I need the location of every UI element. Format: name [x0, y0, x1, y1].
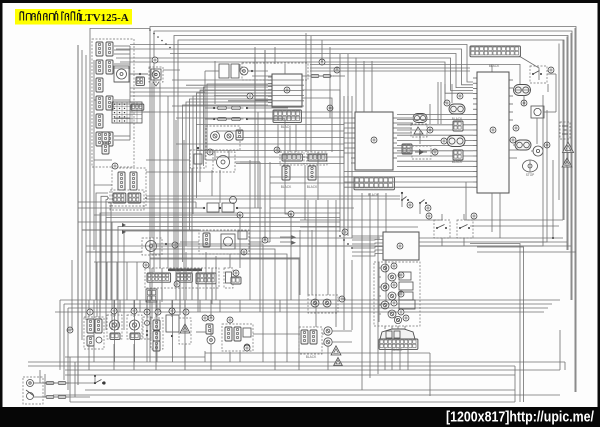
battery sym dashed [560, 122, 570, 139]
meter lamp 5 [381, 300, 415, 309]
wire regulator right stubs [397, 118, 413, 153]
horn buttons dashed [23, 377, 43, 404]
svg-text:BLACK: BLACK [452, 160, 463, 164]
meter lamp 1 [381, 263, 397, 272]
pilot lamp cluster [206, 126, 243, 155]
border frame top [0, 0, 600, 3]
wire right lower link [466, 150, 563, 226]
wire regulator left fan [176, 118, 351, 164]
coupler T1 dashed [274, 147, 304, 165]
wire right col down [559, 28, 575, 392]
wire lower long lines [28, 362, 565, 402]
coupler T2 body [307, 166, 318, 189]
connector block A1 [96, 42, 103, 56]
wire rear stubs [196, 332, 300, 334]
bottom black banner [0, 407, 600, 427]
wire fuse rows [205, 108, 288, 119]
ref number N6 [513, 125, 519, 131]
handle switch HS1 dashed [426, 213, 450, 238]
wire lamp feeders [97, 252, 216, 300]
wire right pair down [470, 160, 554, 402]
ignition inline pills [252, 67, 345, 78]
tail lamp L1 [533, 142, 550, 156]
svg-text:BLACK: BLACK [307, 185, 318, 189]
warning shield W2 [562, 158, 572, 167]
neutral switch SW2 [419, 200, 431, 215]
border frame left [0, 0, 3, 427]
wire switch drops [420, 238, 470, 246]
diode pack D0 dashed [107, 190, 147, 210]
coupler T2 dashed [307, 152, 327, 165]
tail bulb TB1 [324, 327, 332, 335]
fuse panel grid1 [147, 273, 171, 282]
cdi small block [166, 308, 179, 337]
meter unit cluster [219, 64, 253, 78]
rectifier oval O1 [413, 114, 427, 123]
position lamp P1 [143, 317, 151, 339]
wire center-left horizontals [78, 202, 383, 262]
title box [15, 9, 132, 25]
wire conn-top stub [491, 64, 493, 72]
coupler T1 body [281, 166, 292, 189]
ref number N12 [237, 212, 243, 218]
left cluster dashed outline [92, 39, 134, 167]
wire meter bundle joint [339, 235, 353, 249]
CDI unit U1 [268, 74, 302, 107]
mini cluster left of M2 [136, 77, 159, 86]
coupler below CDI [273, 110, 301, 129]
meter lamp 6 [388, 309, 404, 318]
wire bottom long [574, 391, 576, 393]
relay grid R1 [402, 144, 412, 154]
ref number N4 [327, 105, 333, 111]
warning shield W1 [562, 142, 573, 152]
main harness connector top [470, 46, 520, 68]
inline fuse F1 pair [213, 106, 248, 109]
meter coupler pins [379, 339, 418, 352]
meter lamp 3 [381, 282, 413, 291]
svg-text:BLACK: BLACK [392, 348, 403, 352]
inline fuse F2 pair [213, 117, 248, 120]
headlight assy dashed [84, 317, 104, 349]
ref number N7 [342, 229, 348, 235]
wire lower verticals [65, 330, 565, 402]
coupler O2 black [444, 100, 465, 121]
svg-text:[1200x817]http://upic.me/: [1200x817]http://upic.me/ [446, 410, 594, 426]
wire arrow junctions center [280, 235, 296, 245]
svg-text:BLACK: BLACK [368, 193, 379, 197]
connector B2 [102, 144, 109, 154]
wire top-left riser joints [149, 29, 171, 48]
wire staircase right [470, 56, 547, 246]
ref number N2 [247, 93, 253, 99]
rear coupler RC1 [206, 324, 215, 344]
connector block A3 [96, 60, 103, 74]
wire staircase SE [150, 119, 299, 370]
main switch block U3 [473, 72, 513, 193]
side stand switch SW1 [401, 192, 413, 208]
resistor module RM dashed [224, 268, 233, 288]
wire mid bundle verticals [340, 96, 352, 330]
connector block A10 [106, 132, 113, 146]
horn H1 [213, 152, 235, 172]
rear bulbs pair dashed [308, 295, 345, 313]
main switch M1 [114, 66, 129, 82]
meter coupler housing [380, 329, 415, 339]
wire left bus bundle [78, 28, 94, 385]
kick switch [94, 375, 106, 385]
wire lamp risers [215, 150, 229, 160]
title text latin [79, 12, 129, 24]
meter lamp 7 [394, 315, 409, 324]
rear cluster dashed [222, 324, 253, 351]
wire bottom risers2 [100, 300, 280, 312]
svg-text:BLACK: BLACK [306, 355, 317, 359]
connector block A6 [96, 96, 103, 110]
wire meter stubs [205, 70, 268, 72]
inline fuse left1 [43, 382, 69, 385]
wire SW corner bundle [100, 213, 340, 330]
wire A-cluster stubs [114, 46, 130, 140]
starter relay SR [142, 238, 167, 255]
diode box D3 dashed [412, 146, 438, 159]
wire flasher stubs [180, 241, 270, 243]
junction arrows [122, 223, 126, 234]
stop lamp L2 [523, 160, 538, 177]
relay grid R2 [453, 121, 463, 131]
flasher relay FR [199, 230, 249, 255]
lamp row through wires [94, 300, 240, 362]
handlebar switch table [112, 102, 142, 123]
ref number N8 [288, 211, 294, 217]
fuse panel grid2 [176, 273, 192, 282]
handle switch HS2 dashed [457, 213, 477, 238]
wire bottom bus bundle [55, 300, 560, 312]
wire under-reg drops [362, 193, 386, 390]
border frame right [598, 0, 600, 427]
wire diode row [196, 207, 262, 209]
diode block D2 [203, 197, 238, 213]
svg-text:LTV125-A: LTV125-A [79, 12, 129, 24]
wire lamprow risers [89, 300, 185, 370]
wire top bus bundle [90, 27, 576, 393]
rear shield RS1 [331, 346, 341, 355]
wire M1-M2 [129, 73, 148, 75]
wire long left risers [60, 45, 78, 390]
connector block A2 [106, 42, 113, 56]
wire meter risers [385, 326, 408, 370]
wire horn stubs [206, 160, 260, 162]
turn lamp FR [127, 315, 142, 339]
wire right-block far fan [172, 80, 304, 106]
connector block A5 [96, 78, 103, 92]
connector block A7 [106, 96, 113, 110]
coupler O5 [510, 137, 531, 150]
tail bulb TB2 [324, 338, 332, 346]
wire misc diag [240, 64, 340, 152]
small coupler SC1 [231, 270, 241, 284]
wire lamprow feed [152, 268, 328, 370]
wire CDI nested fan [183, 84, 269, 262]
title text thai [20, 11, 80, 21]
fuse panel dashed [143, 262, 219, 288]
regulator unit U2 [351, 112, 397, 170]
banner url text [446, 410, 594, 426]
turn lamp FL [107, 315, 122, 339]
resistor block D1 dashed [190, 147, 206, 168]
speedometer unit U4 [383, 232, 419, 260]
meter lamp 2 [388, 272, 411, 281]
ref number N10 [67, 327, 73, 333]
svg-text:BLACK: BLACK [281, 125, 292, 129]
meter lamp 4 [388, 291, 413, 300]
svg-text:BLACK: BLACK [452, 117, 463, 121]
wire mid verticals [152, 33, 537, 327]
coupler O3 [441, 136, 465, 147]
wire mid horizontals [45, 70, 442, 383]
meter lamps dashed [374, 262, 420, 326]
wire upper crossings [130, 65, 520, 97]
wire right-block left fan [344, 114, 473, 187]
connector B1 [102, 132, 109, 142]
mini coupler below M2 [131, 104, 144, 110]
ignition circuit dashed box [242, 63, 308, 80]
connector block A9 [96, 132, 103, 146]
rear shield RS2 [334, 357, 343, 365]
brake switch SW3 dashed [530, 66, 554, 83]
svg-text:BLACK: BLACK [281, 185, 292, 189]
wire rear right stubs [322, 331, 352, 344]
wire bottom left connects [40, 370, 45, 397]
coupler below regulator [354, 177, 394, 197]
ref number N3 [319, 59, 325, 65]
ref number N11 [172, 242, 178, 248]
flasher unit F3 [521, 100, 544, 118]
lamp row circled numbers [87, 308, 250, 351]
connector block A8 [96, 114, 103, 128]
connector block A4 [106, 60, 113, 74]
inline fuse left2 [43, 396, 69, 399]
wire horn links [34, 382, 560, 397]
wire meter left fan [352, 236, 383, 256]
coupler column CC [151, 318, 163, 351]
wire meter lamp bus [379, 262, 381, 322]
fuse panel bar [168, 269, 202, 272]
svg-text:STOP: STOP [526, 173, 535, 177]
rear coupler RC2 dashed [299, 327, 322, 359]
wire right-side links [513, 74, 556, 151]
turn shield TS1 [179, 318, 191, 344]
ref number N5 [457, 93, 463, 99]
dimmer switch M2 [149, 67, 163, 82]
fuse box 2x2 [146, 289, 157, 302]
wire fusepanel drops [152, 288, 212, 318]
wire vertical feeders2 [196, 47, 548, 295]
relay grid R3 [452, 150, 463, 164]
coupler C1 dashed [112, 163, 146, 206]
sensor S1 dashed [411, 124, 433, 137]
coupler O4 [514, 85, 531, 96]
ref number N9 [262, 237, 268, 243]
wire D0 corner bundle [96, 193, 400, 300]
ref number N1 [152, 57, 158, 63]
wire meter right fan [419, 238, 576, 252]
fuse panel grid3 [174, 273, 216, 287]
